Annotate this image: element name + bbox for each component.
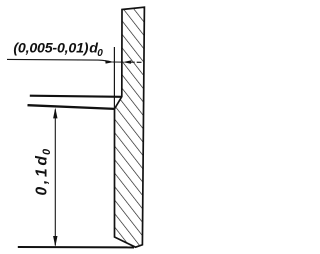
svg-text:0: 0 [41, 148, 53, 155]
bottom face line [18, 246, 134, 248]
die body (hatched cross-section bar) [115, 7, 145, 247]
clearance arrow left (points right) [105, 60, 114, 63]
svg-text:(0,005-0,01): (0,005-0,01) [13, 40, 88, 56]
dimension arrow top [53, 108, 57, 119]
label 0,1d0 (rotated) [33, 148, 53, 196]
vertical dimension line 0,1d0 [54, 110, 56, 246]
leader underline of clearance label [7, 59, 112, 62]
label (0,005-0,01)d0 [13, 40, 103, 59]
hole wall projection line (thin vertical) [113, 47, 115, 109]
svg-text:0: 0 [97, 48, 103, 59]
strip bottom line B [28, 105, 115, 109]
svg-text:0,1d: 0,1d [33, 153, 50, 195]
dimension arrow bottom [53, 236, 57, 247]
strip top line A [30, 96, 122, 97]
clearance arrow right (points left) [123, 60, 132, 63]
clearance arrow right tail (dashed through bar) [130, 61, 144, 63]
clearance dimension line through gap [113, 61, 124, 63]
